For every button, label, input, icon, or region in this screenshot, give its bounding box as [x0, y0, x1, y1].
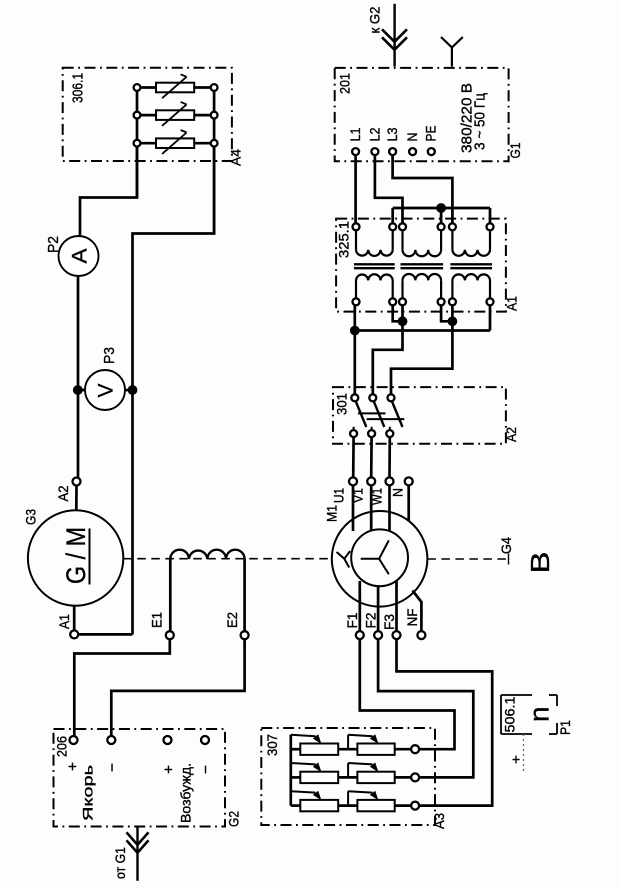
terminal F1 [356, 631, 364, 639]
terminal row 2 [411, 773, 419, 781]
wire primary star bus [393, 207, 490, 210]
svg-text:L2: L2 [366, 127, 382, 141]
resistor R3a (block 307) [300, 800, 338, 811]
motor rotor leads F1 F2 F3 [358, 581, 361, 631]
block G1 box (201 mains supply, dash-dot border) [335, 68, 509, 161]
wire delta T3R to T1L [489, 305, 492, 330]
terminal right rheostat 2 [211, 112, 218, 119]
transformer T2 primary [401, 230, 403, 249]
svg-text:M1: M1 [324, 505, 340, 522]
svg-text:201: 201 [337, 73, 353, 94]
transformer T3 core [450, 263, 492, 265]
motor M1 rotor circle [351, 529, 408, 586]
svg-text:F3: F3 [381, 614, 397, 630]
svg-text:A3: A3 [431, 813, 447, 829]
terminal T3 secondary right [487, 298, 494, 305]
svg-text:G3: G3 [23, 509, 39, 525]
wire from A4 right rail down to A1 [133, 146, 215, 634]
resistor R1 (variable, block 306.1) [156, 83, 194, 93]
svg-text:P2: P2 [45, 236, 62, 253]
svg-text:E1: E1 [150, 612, 165, 628]
svg-text:A4: A4 [228, 149, 244, 166]
svg-text:P3: P3 [101, 347, 118, 364]
svg-text:G4: G4 [498, 537, 514, 554]
svg-text:506.1: 506.1 [502, 696, 518, 732]
svg-text:Возбужд.: Возбужд. [179, 763, 194, 823]
motor M1 outer circle [332, 511, 428, 607]
resistor R2b (block 307) [357, 772, 394, 783]
wire rheostat row 1 [137, 86, 214, 89]
svg-text:301: 301 [334, 393, 350, 415]
wire L2 to T2 [375, 155, 403, 223]
wire rheostat row 2 [137, 114, 214, 117]
wire row 1 connections [291, 748, 301, 751]
wire from A4 left rail to ammeter P2 [80, 146, 137, 236]
terminal L1 [352, 148, 359, 155]
svg-text:+: + [508, 755, 524, 764]
wire E2 to supply 206 minus [111, 639, 244, 736]
wire delta T2R to T3L [441, 305, 452, 321]
transformer T1 secondary [356, 274, 393, 280]
wire E1 to supply 206 plus [74, 639, 170, 736]
resistor R1b (block 307) [357, 744, 394, 755]
terminal left rheostat 1 [134, 84, 141, 91]
block A2 box (301 three-pole switch, dash-dot border) [333, 387, 506, 444]
terminal T2 primary left [399, 223, 406, 230]
transformer T1 primary [355, 230, 357, 249]
svg-text:E2: E2 [225, 612, 240, 628]
terminal - armature [107, 736, 115, 744]
earth Y symbol [451, 48, 453, 67]
junction dot left of P3 [73, 385, 83, 395]
switch S3 pole [388, 394, 395, 401]
wire S2 to V1 [370, 437, 373, 478]
cable arrow ot G1 [136, 827, 138, 881]
ammeter P2 [59, 236, 99, 276]
wire F1 to rheostat row 1 [360, 639, 455, 749]
svg-text:N: N [390, 488, 406, 497]
terminal + armature [70, 736, 78, 744]
wire A1 to armature circuit [78, 633, 132, 636]
terminal N [409, 148, 416, 155]
wire S3 to W1 [388, 437, 391, 478]
junction dot primary bus [436, 203, 446, 213]
svg-text:+: + [161, 765, 178, 774]
motor stator leads [352, 485, 355, 531]
voltmeter P3 [78, 389, 87, 392]
terminal T1 secondary left [353, 298, 360, 305]
terminal F2 [374, 631, 382, 639]
inductor field winding E1-E2 [170, 550, 244, 559]
rheostat common bus [289, 735, 292, 806]
terminal E2 [241, 631, 249, 639]
terminal - excitation [201, 736, 209, 744]
dotted lead of P1 [523, 734, 525, 772]
terminal row 1 [411, 745, 419, 753]
node rail right of rheostats [213, 88, 216, 234]
wire F3 to rheostat row 3 [397, 639, 493, 806]
transformer T3 primary [451, 230, 453, 249]
terminal + excitation [164, 736, 172, 744]
resistor R2 (variable, block 306.1) [156, 110, 194, 120]
transformer T1 core [354, 263, 395, 265]
wire ammeter to node/A2 [77, 276, 80, 478]
wire row 2 connections [291, 776, 301, 779]
junction dot T2L [398, 316, 408, 326]
wire L1 to T1 [354, 155, 357, 223]
terminal T3 primary left [449, 223, 456, 230]
wire rheostat row 3 [137, 142, 214, 145]
terminal A1 of G3 [73, 606, 76, 631]
svg-text:PE: PE [423, 126, 439, 142]
terminal right rheostat 3 [211, 140, 218, 147]
svg-text:L1: L1 [347, 127, 363, 141]
svg-text:P1: P1 [557, 720, 573, 735]
terminal NF [417, 631, 425, 639]
svg-text:307: 307 [264, 734, 280, 756]
wire S1 to U1 [352, 437, 355, 478]
terminal E1 [166, 631, 174, 639]
resistor R3 (variable, block 306.1) [156, 138, 194, 148]
terminal row 3 [411, 802, 419, 810]
svg-text:206: 206 [54, 736, 70, 757]
svg-text:NF: NF [404, 609, 420, 627]
terminal T1 primary left [353, 223, 360, 230]
junction dot T3L [448, 316, 458, 326]
terminal U1 [349, 477, 357, 485]
svg-text:A1: A1 [57, 614, 72, 629]
svg-text:U1: U1 [331, 488, 347, 503]
cable arrow k G2 [393, 4, 395, 67]
svg-text:G2: G2 [226, 811, 242, 827]
terminal T2 primary right [438, 223, 445, 230]
terminal T2 secondary left [399, 298, 406, 305]
transformer T3 secondary [452, 274, 490, 280]
svg-text:F2: F2 [363, 612, 379, 628]
svg-text:−: − [198, 765, 215, 774]
wire A2 to G3 [75, 486, 78, 511]
terminal PE [428, 148, 435, 155]
terminal N motor [405, 477, 413, 485]
wire delta T1R to T2L [393, 305, 403, 321]
block A4 box (306.1 load rheostat unit, dash-dot border) [63, 68, 232, 161]
block G2 box (206 DC supply, dash-dot border) [54, 729, 226, 827]
switch coupling bar [358, 412, 386, 414]
svg-text:3 ~ 50 Гц: 3 ~ 50 Гц [473, 93, 489, 150]
svg-text:N: N [404, 133, 420, 142]
wire T2L to switch 2 (phase B) [373, 305, 403, 394]
svg-text:−: − [104, 763, 121, 772]
switch S1 pole [351, 394, 358, 401]
brush star symbol [337, 552, 345, 559]
motor NF lead [413, 591, 422, 632]
terminal L3 [389, 148, 396, 155]
block A1 box (325.1 transformer unit, dash-dot border) [336, 219, 506, 312]
switch S2 pole [369, 394, 376, 401]
svg-text:B: B [525, 552, 555, 574]
svg-text:L3: L3 [384, 127, 400, 141]
svg-text:F1: F1 [344, 612, 360, 628]
terminal left rheostat 3 [134, 140, 141, 147]
terminal T3 primary right [487, 223, 494, 230]
svg-text:A2: A2 [503, 427, 519, 442]
terminal W1 [386, 477, 394, 485]
terminal T1 secondary right [389, 298, 396, 305]
svg-text:Якорь: Якорь [80, 765, 96, 821]
terminal left rheostat 2 [134, 112, 141, 119]
wire L3 to T3 [393, 155, 453, 223]
resistor R1a (block 307) [300, 744, 338, 755]
block A3 box (307 rotor rheostat unit, dash-dot border) [261, 728, 435, 825]
svg-text:от G1: от G1 [113, 847, 128, 879]
terminal A2 of G3 [73, 478, 81, 486]
terminal F3 [393, 631, 401, 639]
transformer T2 secondary [403, 274, 442, 280]
machine G3 (G/M) [28, 510, 123, 605]
resistor R3b (block 307) [357, 800, 394, 811]
svg-text:к G2: к G2 [368, 7, 383, 34]
block P1 box (506.1 speed indicator) [500, 695, 502, 734]
terminal T3 secondary left [449, 298, 456, 305]
junction dot right of P3 [128, 385, 138, 395]
terminal T2 secondary right [438, 298, 445, 305]
junction dot T1L [350, 326, 360, 336]
svg-text:A2: A2 [56, 486, 71, 502]
rotor star symbol [361, 558, 379, 560]
shaft dashed line G3 to M1 [123, 558, 331, 560]
terminal V1 [367, 477, 375, 485]
svg-text:V: V [95, 384, 118, 398]
wire F2 to rheostat row 2 [378, 639, 473, 778]
terminal L2 [371, 148, 378, 155]
terminal T1 primary right [389, 223, 396, 230]
terminal right rheostat 1 [211, 84, 218, 91]
svg-text:A1: A1 [504, 296, 520, 311]
svg-text:325.1: 325.1 [336, 221, 352, 258]
transformer T2 core [401, 263, 444, 265]
wire T3L to switch 3 (phase C) [391, 305, 452, 394]
svg-text:n: n [524, 706, 555, 722]
svg-text:306.1: 306.1 [70, 73, 87, 103]
shaft dashed line to G4 [427, 558, 508, 560]
node rail left of rheostats [136, 88, 139, 198]
resistor R2a (block 307) [300, 772, 338, 783]
svg-text:A: A [69, 249, 92, 264]
svg-text:G1: G1 [507, 142, 523, 158]
wire T1L to switch 1 (phase A) [353, 305, 356, 394]
wire row 3 connections [291, 804, 301, 807]
svg-text:G / M: G / M [61, 527, 91, 584]
